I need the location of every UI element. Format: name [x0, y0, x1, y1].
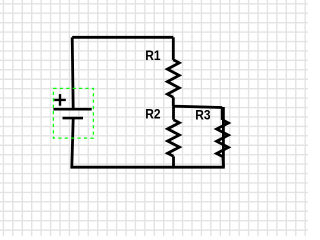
svg-text:R1: R1 — [145, 47, 161, 63]
svg-text:R2: R2 — [145, 106, 161, 122]
svg-text:R3: R3 — [195, 106, 211, 122]
